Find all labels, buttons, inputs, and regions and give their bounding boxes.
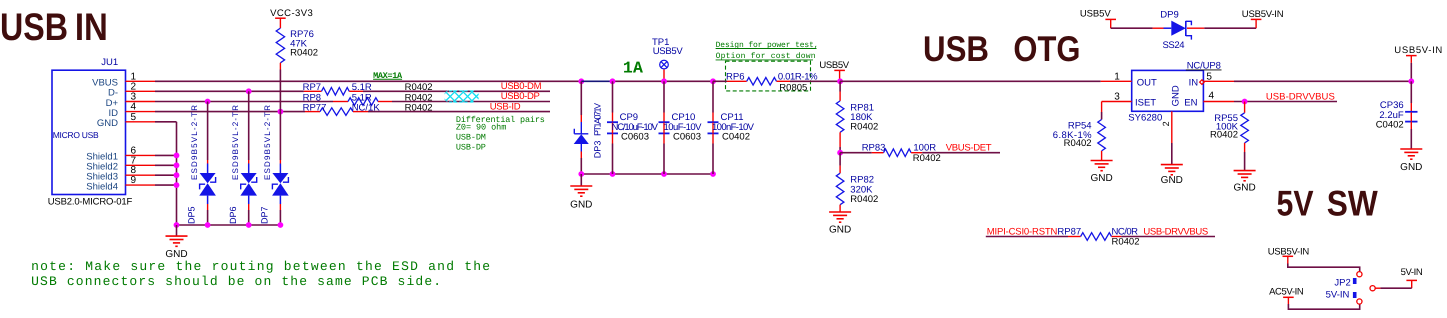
svg-text:GND: GND xyxy=(97,118,118,129)
svg-text:RP77: RP77 xyxy=(303,103,327,114)
svg-text:PT1A071V: PT1A071V xyxy=(593,103,603,136)
IC U8 SY6280 xyxy=(1132,70,1204,111)
resistor RP82 xyxy=(839,153,841,166)
svg-text:OUT: OUT xyxy=(1137,77,1157,88)
svg-text:GND: GND xyxy=(829,225,851,236)
wire pin4 EN xyxy=(1203,101,1234,103)
svg-text:GND: GND xyxy=(1161,175,1183,186)
svg-text:4: 4 xyxy=(1209,90,1215,101)
svg-text:IN: IN xyxy=(1189,77,1199,88)
svg-text:5V: 5V xyxy=(1277,184,1314,224)
svg-text:MIPI-CSI0-RSTN: MIPI-CSI0-RSTN xyxy=(987,226,1058,237)
wire GND pin to ground xyxy=(155,121,177,123)
svg-text:JU1: JU1 xyxy=(101,57,118,68)
svg-text:R0805: R0805 xyxy=(779,83,807,94)
power USB5V-IN top xyxy=(1251,18,1262,20)
power USB5V xyxy=(834,69,845,71)
cap ground rail xyxy=(581,173,713,175)
svg-text:ESD9B5VL-2-TR: ESD9B5VL-2-TR xyxy=(190,105,199,180)
wire MIPI row xyxy=(986,236,1068,238)
svg-text:GND: GND xyxy=(1170,85,1181,106)
option dashed box xyxy=(726,61,811,91)
svg-text:1A: 1A xyxy=(623,59,643,78)
svg-text:2: 2 xyxy=(1161,121,1171,126)
ground symbol RP54 xyxy=(1091,160,1113,162)
wire navy segment xyxy=(581,80,612,82)
svg-text:R0402: R0402 xyxy=(850,194,878,205)
svg-text:AC5V-IN: AC5V-IN xyxy=(1269,287,1304,298)
svg-text:USB5V-IN: USB5V-IN xyxy=(1394,45,1442,56)
wire pin2 GND xyxy=(1171,111,1173,143)
ground symbol RP82 xyxy=(829,211,851,213)
svg-text:R0402: R0402 xyxy=(850,122,878,133)
wire shield stubs xyxy=(155,154,177,156)
power VCC-3V3 xyxy=(275,17,286,19)
resistor RP55 xyxy=(1244,102,1246,113)
svg-text:USB-DP: USB-DP xyxy=(456,142,486,152)
svg-text:DP9: DP9 xyxy=(1160,10,1178,21)
svg-text:USB5V-IN: USB5V-IN xyxy=(1268,247,1310,258)
resistor RP76 xyxy=(276,28,284,63)
node VBUS-DET tap xyxy=(837,150,843,156)
svg-text:RP87: RP87 xyxy=(1057,226,1081,237)
ground symbol CP36 xyxy=(1400,148,1422,150)
ESD diode DP6 xyxy=(246,88,252,94)
ground symbol connector xyxy=(176,225,178,236)
svg-text:SS24: SS24 xyxy=(1163,40,1185,51)
capacitor CP11 xyxy=(710,78,716,84)
svg-text:USB5V: USB5V xyxy=(653,46,684,57)
wire to DP9 xyxy=(1111,27,1153,29)
svg-text:C0402: C0402 xyxy=(1376,120,1404,131)
wire pin3 to RP54 xyxy=(1102,101,1132,103)
svg-text:RP83: RP83 xyxy=(862,143,886,154)
svg-text:SW: SW xyxy=(1327,184,1378,224)
capacitor CP9 xyxy=(610,78,616,84)
svg-text:DP7: DP7 xyxy=(260,206,270,224)
svg-text:Shield4: Shield4 xyxy=(86,181,118,192)
svg-text:USB: USB xyxy=(923,29,989,69)
svg-text:EN: EN xyxy=(1184,97,1197,108)
resistor RP81 xyxy=(839,81,841,91)
power USB5V top right xyxy=(1105,18,1116,20)
no-connect diamond xyxy=(1200,80,1205,85)
wire pin1 xyxy=(1101,80,1132,82)
svg-text:USB connectors should be on th: USB connectors should be on the same PCB… xyxy=(31,274,441,289)
svg-text:GND: GND xyxy=(570,200,592,211)
svg-text:USB2.0-MICRO-01F: USB2.0-MICRO-01F xyxy=(48,197,133,208)
svg-text:VBUS-DET: VBUS-DET xyxy=(946,143,992,154)
svg-text:DP6: DP6 xyxy=(228,206,238,224)
svg-text:OTG: OTG xyxy=(1013,29,1080,69)
svg-text:R0402: R0402 xyxy=(913,153,941,164)
ground symbol U8 xyxy=(1161,164,1183,166)
resistor RP87 xyxy=(1068,236,1081,238)
svg-text:USB5V-IN: USB5V-IN xyxy=(1242,9,1284,20)
power USB5V-IN right xyxy=(1406,55,1417,57)
wire D+ row xyxy=(155,101,333,103)
svg-text:USB-DRVVBUS: USB-DRVVBUS xyxy=(1266,91,1335,102)
svg-text:R0402: R0402 xyxy=(1064,138,1092,149)
svg-text:C0603: C0603 xyxy=(621,131,649,142)
svg-text:3: 3 xyxy=(1114,91,1120,102)
resistor RP83 xyxy=(840,152,872,154)
capacitor CP10 xyxy=(661,78,667,84)
svg-text:DP5: DP5 xyxy=(187,206,197,224)
wire pin5 NC/UP8 xyxy=(1203,80,1234,82)
node USB5V mid (dot) xyxy=(578,78,584,84)
svg-text:Z0= 90 ohm: Z0= 90 ohm xyxy=(456,123,506,133)
resistor RP54 xyxy=(1098,120,1106,151)
connector JU1 xyxy=(52,70,126,194)
svg-text:GND: GND xyxy=(1400,162,1422,173)
svg-text:GND: GND xyxy=(1090,173,1112,184)
ESD diode DP5 xyxy=(205,99,211,105)
wire VBUS row xyxy=(155,80,581,82)
svg-text:R0402: R0402 xyxy=(1210,130,1238,141)
svg-text:USB: USB xyxy=(0,6,68,49)
svg-text:note: Make sure the routing be: note: Make sure the routing between the … xyxy=(31,259,490,274)
svg-text:USB-DRVVBUS: USB-DRVVBUS xyxy=(1143,226,1208,237)
wire D- row xyxy=(155,90,304,92)
svg-text:ISET: ISET xyxy=(1135,97,1156,108)
ground symbol RP55 xyxy=(1234,170,1256,172)
svg-text:0.01R-1%: 0.01R-1% xyxy=(778,71,818,82)
svg-text:GND: GND xyxy=(1233,182,1255,193)
svg-text:USB-DM: USB-DM xyxy=(456,132,486,142)
svg-text:100R: 100R xyxy=(913,143,936,154)
svg-text:R0402: R0402 xyxy=(290,48,318,59)
diode DP9 SS24 xyxy=(1171,21,1186,36)
diode DP3 xyxy=(580,81,582,115)
svg-text:R0402: R0402 xyxy=(405,103,433,114)
svg-text:IN: IN xyxy=(75,6,108,49)
ground rail bottom left xyxy=(177,224,282,226)
svg-text:5V-IN: 5V-IN xyxy=(1326,290,1350,301)
wire ID row xyxy=(155,111,305,113)
resistor RP6 xyxy=(713,80,727,82)
svg-text:C0603: C0603 xyxy=(673,131,701,142)
resistor RP7 xyxy=(304,90,322,92)
svg-text:DP3: DP3 xyxy=(593,141,603,159)
ground symbol DP3 xyxy=(580,174,582,186)
resistor RP77 xyxy=(305,111,320,113)
svg-text:C0402: C0402 xyxy=(722,131,750,142)
svg-text:JP2: JP2 xyxy=(1334,278,1350,289)
svg-text:R0402: R0402 xyxy=(1112,236,1140,247)
capacitor CP36 xyxy=(1410,81,1412,103)
svg-text:USB5V: USB5V xyxy=(819,60,849,71)
svg-text:ESD9B5VL-2-TR: ESD9B5VL-2-TR xyxy=(263,105,272,180)
svg-text:MICRO USB: MICRO USB xyxy=(53,130,99,140)
power USB5V-IN jumper xyxy=(1283,255,1294,257)
svg-text:ESD9B5VL-2-TR: ESD9B5VL-2-TR xyxy=(231,105,240,180)
svg-text:VCC-3V3: VCC-3V3 xyxy=(270,8,313,19)
power 5V-IN xyxy=(1406,279,1417,281)
svg-text:5V-IN: 5V-IN xyxy=(1401,267,1423,278)
svg-text:NC/1K: NC/1K xyxy=(352,103,381,114)
svg-text:RP6: RP6 xyxy=(726,71,744,82)
wire USB5V to U8 xyxy=(840,80,1101,82)
svg-text:USB-ID: USB-ID xyxy=(490,101,521,112)
svg-text:USB0-DP: USB0-DP xyxy=(501,91,540,102)
ESD diode DP7 xyxy=(278,109,284,115)
power AC5V-IN xyxy=(1283,296,1294,298)
svg-text:SY6280: SY6280 xyxy=(1128,112,1162,123)
svg-text:USB5V: USB5V xyxy=(1080,8,1111,19)
resistor RP8 xyxy=(333,101,348,103)
